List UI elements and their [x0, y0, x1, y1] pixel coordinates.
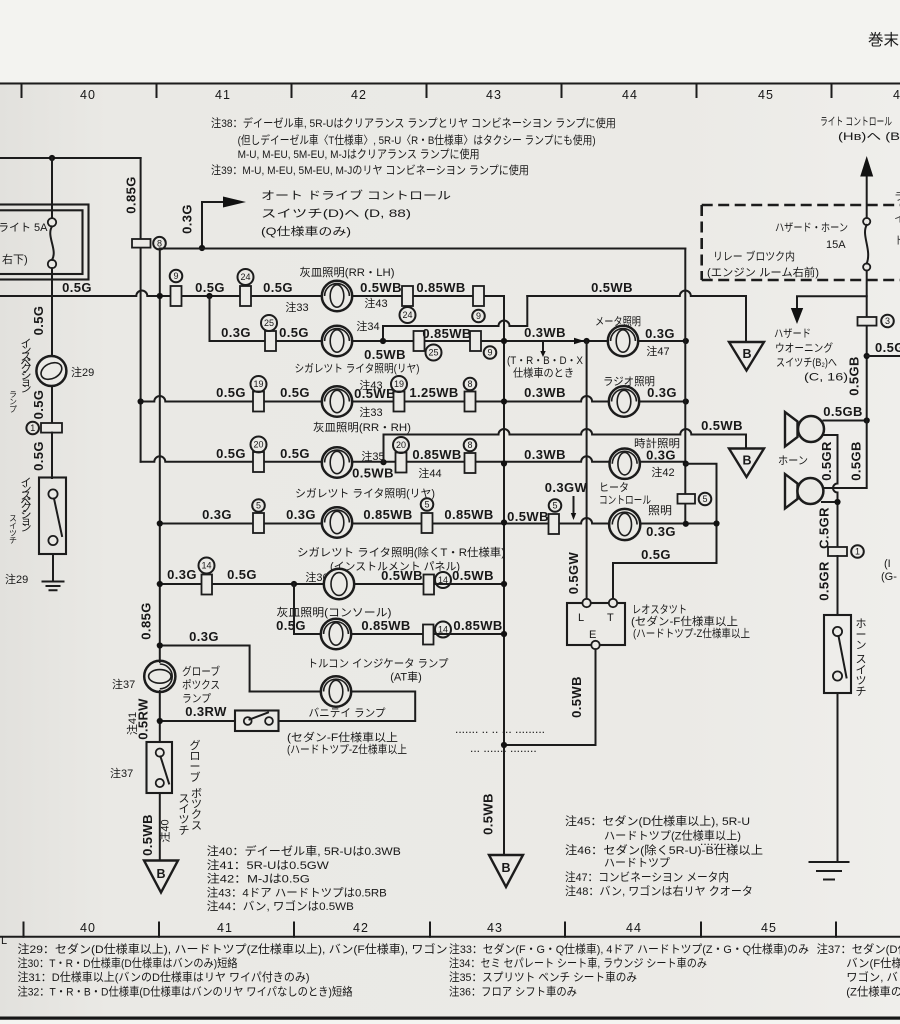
wire: clock row corner to rheostat-T rail	[613, 464, 717, 599]
lamp: heater control illumination	[609, 509, 640, 540]
wire: rail L2 from top bus down to glove box lamp	[159, 249, 161, 662]
svg-text:46: 46	[893, 88, 900, 102]
svg-text:オート ドライブ コントロール: オート ドライブ コントロール	[261, 188, 451, 202]
annotation arrow on meter wire	[574, 338, 585, 344]
svg-text:0.5GR: 0.5GR	[819, 441, 834, 481]
ground triangle B3	[489, 855, 523, 887]
svg-text:(AT車): (AT車)	[390, 670, 422, 684]
svg-text:0.85WB: 0.85WB	[444, 507, 493, 522]
connector 8c row4	[465, 453, 476, 473]
svg-text:ト: ト	[894, 235, 900, 247]
horn 2 (lower)	[785, 474, 823, 509]
wire: fuse up to light control arrow	[866, 176, 868, 218]
svg-text:ライト 5A: ライト 5A	[0, 222, 48, 234]
wire: top feed y=158	[0, 157, 141, 159]
svg-text:(I: (I	[884, 558, 891, 570]
svg-text:0.5G: 0.5G	[280, 446, 310, 461]
svg-text:注40: 注40	[158, 819, 172, 842]
svg-text:42: 42	[353, 921, 369, 935]
svg-text:(但しデイーゼル車〈T仕様車〉, 5R-U〈R・B仕様車〉は: (但しデイーゼル車〈T仕様車〉, 5R-U〈R・B仕様車〉はタクシー ランプにも…	[238, 133, 596, 147]
wire: stub row1 to row2	[209, 296, 211, 341]
notes 45-48	[565, 814, 763, 898]
wire: vanity lamp right loop to switch	[279, 692, 416, 722]
svg-text:0.3RW: 0.3RW	[185, 704, 227, 719]
svg-text:0.3GW: 0.3GW	[545, 480, 588, 495]
svg-text:0.5G: 0.5G	[31, 390, 46, 420]
svg-text:5: 5	[256, 501, 261, 511]
top ruler	[0, 84, 900, 103]
svg-text:0.85WB: 0.85WB	[361, 618, 410, 633]
svg-text:注44: 注44	[418, 466, 441, 480]
svg-text:注37：セダン(D仕様車: 注37：セダン(D仕様車	[817, 942, 900, 956]
connector 1	[41, 423, 62, 433]
svg-text:0.5WB: 0.5WB	[360, 280, 402, 295]
wire: main top bus y=248.5	[160, 248, 686, 250]
svg-text:(ハードトツプ-Z仕様車以上: (ハードトツプ-Z仕様車以上	[287, 742, 407, 756]
svg-text:0.85WB: 0.85WB	[422, 326, 471, 341]
svg-text:(セダン-F仕様車以上: (セダン-F仕様車以上	[631, 614, 738, 628]
svg-text:注39：M-U, M-EU, 5M-EU, M-Jのリヤ コ: 注39：M-U, M-EU, 5M-EU, M-Jのリヤ コンビネーシヨン ラン…	[211, 163, 529, 177]
wire: horn switch to ground	[837, 693, 839, 862]
svg-text:ハザード: ハザード	[774, 327, 811, 340]
svg-text:0.5G: 0.5G	[62, 280, 92, 295]
svg-text:14: 14	[201, 561, 211, 571]
vertical label インスペクション ランプ	[9, 338, 31, 414]
wire: M1 branch row6 to row7	[294, 584, 504, 634]
svg-text:0.3G: 0.3G	[286, 507, 316, 522]
node row7/M2	[501, 631, 507, 637]
svg-text:0.5WB: 0.5WB	[507, 509, 549, 524]
wire: fuse down through connector 3 to horn bus	[866, 271, 868, 421]
svg-text:9: 9	[476, 311, 481, 321]
ground triangle B2	[729, 449, 764, 478]
node row2/M2	[501, 338, 507, 344]
wire: switch to ground	[52, 554, 54, 581]
svg-text:注33: 注33	[285, 300, 308, 314]
svg-text:8: 8	[467, 379, 472, 389]
svg-text:照明: 照明	[648, 504, 672, 517]
svg-text:(Hв)へ (B: (Hв)へ (B	[838, 131, 900, 143]
svg-text:注29：セダン(D仕様車以上), ハードトツプ(Z仕様車以上: 注29：セダン(D仕様車以上), ハードトツプ(Z仕様車以上), バン(F仕様車…	[18, 942, 448, 956]
svg-text:8: 8	[467, 440, 472, 450]
node row1/L2	[157, 293, 163, 299]
wire: rheostat E to M2	[504, 649, 596, 745]
svg-text:41: 41	[217, 921, 233, 935]
svg-text:(ハードトツプ-Z仕様車以上: (ハードトツプ-Z仕様車以上	[633, 626, 750, 640]
fusebox (double border, clipped at left page edge)	[0, 205, 89, 280]
svg-text:20: 20	[253, 440, 263, 450]
svg-text:シガレツト ライタ照明(除くT・R仕様車): シガレツト ライタ照明(除くT・R仕様車)	[297, 545, 505, 559]
svg-text:注29: 注29	[5, 572, 28, 586]
svg-text:注42: 注42	[651, 465, 674, 479]
svg-text:注43：4ドア ハードトツプは0.5RB: 注43：4ドア ハードトツプは0.5RB	[207, 886, 387, 900]
svg-text:14: 14	[438, 575, 448, 585]
svg-text:注36：フロア シフト車のみ: 注36：フロア シフト車のみ	[449, 985, 577, 999]
svg-text:5: 5	[552, 501, 557, 511]
svg-text:(C, 16): (C, 16)	[804, 372, 848, 384]
spec text T・R・B・D・X	[507, 355, 584, 380]
bottom notes column 2 (注33-36)	[449, 942, 809, 999]
svg-text:ボツクス: ボツクス	[191, 787, 202, 832]
svg-text:0.5WB: 0.5WB	[352, 466, 394, 481]
connector 14b row6	[424, 575, 435, 595]
svg-text:0.5G: 0.5G	[227, 567, 257, 582]
svg-text:インスペクション: インスペクション	[21, 338, 32, 395]
note 38/39 text block	[211, 116, 616, 177]
svg-text:0.3WB: 0.3WB	[524, 325, 566, 340]
svg-text:0.5WB: 0.5WB	[140, 814, 155, 856]
vertical label グローブ ボツクス スイツチ	[179, 738, 203, 837]
lamp: cigarette lighter illumination rear (row4)	[322, 447, 352, 477]
relay block dashed box	[702, 205, 900, 280]
node row5/M2	[501, 519, 507, 525]
ground (inspection switch)	[43, 582, 64, 591]
ground triangle B1	[729, 342, 764, 371]
node row2 jog join	[380, 338, 386, 344]
rheostat レオスタツト	[567, 599, 625, 649]
svg-text:スイツチ(D)へ (D, 88): スイツチ(D)へ (D, 88)	[261, 207, 411, 220]
wire: 0.85G rail L1 (x=141.8) from top feed down to cigarette-lighter row	[140, 158, 142, 462]
svg-text:5: 5	[702, 494, 707, 504]
svg-text:グローブ: グローブ	[182, 664, 220, 678]
connector 25 row2	[265, 331, 276, 351]
svg-text:0.5WB: 0.5WB	[452, 568, 494, 583]
svg-text:ハザード・ホーン: ハザード・ホーン	[775, 221, 848, 234]
connector 20 row4	[253, 452, 264, 472]
svg-text:メータ照明: メータ照明	[595, 315, 641, 328]
svg-text:グローブ: グローブ	[190, 738, 201, 784]
svg-text:0.85G: 0.85G	[124, 176, 139, 213]
lamp: torque converter indicator lamp	[321, 619, 351, 649]
node row5/L2	[157, 520, 163, 526]
wire: right rail down and left to horn2	[824, 421, 867, 489]
lamp: meter illumination	[608, 326, 638, 356]
lamp: ashtray illumination RR-LH	[322, 281, 352, 311]
node heater/M5	[683, 521, 689, 527]
svg-text:0.85WB: 0.85WB	[363, 507, 412, 522]
svg-text:0.3G: 0.3G	[646, 448, 676, 463]
svg-text:43: 43	[487, 921, 503, 935]
svg-text:0.5G: 0.5G	[279, 325, 309, 340]
svg-text:0.5WB: 0.5WB	[701, 418, 743, 433]
svg-text:25: 25	[264, 318, 274, 328]
connector 25b row2	[414, 331, 425, 351]
connector 5d on M5 between clock and heater rows	[678, 494, 696, 504]
wire: rail M5 top bus continuation down to heater row	[684, 249, 686, 525]
connector 9b row1	[473, 286, 484, 306]
svg-text:0.3G: 0.3G	[647, 385, 677, 400]
wire: B2 bus 0.5WB y=434.5 (humps over M2, M4, M5)	[384, 429, 747, 462]
svg-text:0.3G: 0.3G	[221, 325, 251, 340]
svg-text:1: 1	[30, 423, 35, 433]
svg-text:注45：セダン(D仕様車以上), 5R-U: 注45：セダン(D仕様車以上), 5R-U	[565, 814, 750, 828]
wire: row4 cigarette lighter rear2 / clock y=463.5 (humps over L2, M4)	[141, 456, 686, 463]
svg-text:....... .. .. ... .........: ....... .. .. ... .........	[455, 722, 545, 736]
svg-text:0.5WB: 0.5WB	[569, 676, 584, 718]
lamp: glove box lamp	[144, 661, 175, 692]
svg-text:注37: 注37	[110, 766, 133, 780]
lamp: ashtray illumination (console)	[324, 569, 354, 599]
wire: connector to horn switch	[837, 556, 839, 615]
svg-text:M-U, M-EU, 5M-EU, M-Jはクリアランス ラ: M-U, M-EU, 5M-EU, M-Jはクリアランス ランプに使用	[238, 147, 480, 161]
svg-text:ポツクス: ポツクス	[182, 679, 220, 692]
svg-text:スイツチ: スイツチ	[179, 793, 190, 837]
svg-text:0.3G: 0.3G	[202, 507, 232, 522]
svg-text:1: 1	[855, 547, 860, 557]
svg-text:19: 19	[253, 379, 263, 389]
switch: horn switch	[824, 615, 851, 693]
svg-text:0.5G: 0.5G	[280, 385, 310, 400]
svg-text:0.5WB: 0.5WB	[381, 568, 423, 583]
lamp: cigarette lighter illumination (instrument panel)	[322, 507, 352, 537]
connector 24 row1	[240, 286, 251, 306]
lamp: cigarette lighter illumination (rear)	[322, 326, 352, 356]
svg-text:注43: 注43	[364, 296, 387, 310]
svg-text:仕様車のとき: 仕様車のとき	[513, 366, 574, 380]
svg-text:右下): 右下)	[2, 252, 28, 266]
connector 9c row2	[470, 331, 481, 351]
svg-text:注33: 注33	[359, 405, 382, 419]
svg-text:ハードトツプ(Z仕様車以上): ハードトツプ(Z仕様車以上)	[604, 829, 741, 843]
svg-text:9: 9	[487, 348, 492, 358]
connector 24b row1	[402, 286, 413, 306]
svg-text:45: 45	[758, 88, 774, 102]
svg-text:T: T	[607, 612, 614, 624]
connector 5 row5	[253, 513, 264, 533]
svg-text:0.5G: 0.5G	[875, 340, 900, 355]
bottom scan edge line	[0, 1017, 900, 1020]
svg-text:43: 43	[486, 88, 502, 102]
svg-text:44: 44	[622, 88, 638, 102]
svg-text:0.85WB: 0.85WB	[453, 618, 502, 633]
wire: glove lamp down to glove switch	[159, 692, 161, 742]
svg-text:0.5GB: 0.5GB	[823, 404, 863, 419]
node row6/M2	[501, 581, 507, 587]
svg-text:リレー ブロツク内: リレー ブロツク内	[713, 249, 795, 263]
wire: 0.3G branch with arrow to auto drive control	[202, 202, 223, 248]
node row6 branch M1	[291, 581, 297, 587]
svg-text:24: 24	[402, 310, 412, 320]
svg-text:B: B	[501, 861, 510, 875]
wire: row3 ashtray RR-RH / radio y=401.5 (humps over L2, M4)	[141, 396, 686, 402]
svg-text:0.5G: 0.5G	[31, 441, 46, 471]
svg-text:40: 40	[80, 88, 96, 102]
svg-text:ワゴン, バン: ワゴン, バン	[846, 970, 900, 984]
node row2/M5 and M4 top	[683, 338, 689, 344]
svg-text:0.85G: 0.85G	[139, 602, 154, 639]
svg-text:シガレツト ライタ照明(リヤ): シガレツト ライタ照明(リヤ)	[295, 362, 420, 375]
svg-text:0.3G: 0.3G	[646, 524, 676, 539]
svg-text:スイツチ(B₂)へ: スイツチ(B₂)へ	[776, 356, 837, 369]
ground (horn switch)	[810, 862, 849, 880]
wire: rail M2 x=504 from row1 down to B3	[503, 296, 505, 855]
vanity spec note	[287, 730, 407, 756]
svg-text:E: E	[589, 629, 596, 641]
svg-text:0.5WB: 0.5WB	[364, 347, 406, 362]
svg-text:14: 14	[438, 625, 448, 635]
lamp: clock illumination	[610, 449, 640, 479]
node heater/T-rail	[713, 520, 719, 526]
svg-text:8: 8	[157, 238, 162, 248]
svg-text:0.3G: 0.3G	[645, 326, 675, 341]
svg-text:注34: 注34	[356, 319, 379, 333]
svg-text:注30：T・R・D仕様車(D仕様車はバンのみ)短絡: 注30：T・R・D仕様車(D仕様車はバンのみ)短絡	[18, 956, 238, 970]
svg-text:スイツチ: スイツチ	[9, 514, 17, 545]
fuse hazard-horn 15A	[863, 218, 870, 271]
svg-text:0.5G: 0.5G	[216, 385, 246, 400]
svg-text:灰皿照明(RR・LH): 灰皿照明(RR・LH)	[300, 265, 395, 279]
node row4 branch to B2 bus	[380, 459, 386, 465]
annotation arrow to spec text	[542, 343, 544, 351]
svg-text:0.5G: 0.5G	[641, 547, 671, 562]
wire: lamp to connector 1	[51, 386, 53, 423]
wire: 0.5WB row to ground B1 (y=296, hump over M5)	[527, 291, 746, 343]
svg-text:0.5WB: 0.5WB	[354, 386, 396, 401]
connector 8b row3	[465, 392, 476, 412]
svg-text:20: 20	[396, 440, 406, 450]
svg-text:ウオーニング: ウオーニング	[775, 341, 833, 355]
connector 19b row3	[394, 392, 405, 412]
connector 9 row1	[171, 286, 182, 306]
svg-text:0.5WB: 0.5WB	[591, 280, 633, 295]
lamp: radio illumination	[609, 386, 639, 416]
svg-text:注37: 注37	[112, 677, 135, 691]
svg-text:3: 3	[885, 316, 890, 326]
svg-text:注34：セミ セパレート シート車, ラウンジ シート車のみ: 注34：セミ セパレート シート車, ラウンジ シート車のみ	[449, 956, 707, 970]
svg-text:0.5G: 0.5G	[216, 446, 246, 461]
node row1 stub to row2	[206, 293, 212, 299]
svg-text:0.5GW: 0.5GW	[566, 551, 581, 594]
lamp: vanity lamp	[321, 676, 351, 706]
connector 5c row5	[549, 514, 560, 534]
wire: horn1 to right rail 0.5GB	[824, 420, 867, 422]
connector 3	[858, 317, 877, 326]
wire: vanity switch to glove rail	[160, 720, 235, 722]
svg-text:ホーン: ホーン	[778, 454, 808, 467]
switch: glove box switch	[147, 742, 173, 793]
svg-text:注48：バン, ワゴンは右リヤ クオータ: 注48：バン, ワゴンは右リヤ クオータ	[565, 884, 753, 898]
svg-text:レオスタツト: レオスタツト	[632, 603, 687, 616]
wire: fuse drop into fusebox	[51, 158, 53, 218]
svg-text:(エンジン ルーム右前): (エンジン ルーム右前)	[707, 265, 819, 279]
svg-text:注47: 注47	[646, 344, 669, 358]
svg-text:ヒータ: ヒータ	[599, 481, 629, 494]
svg-text:L: L	[578, 612, 584, 624]
svg-text:0.5G: 0.5G	[195, 280, 225, 295]
svg-text:注31：D仕様車以上(バンのD仕様車はリヤ ワイパ付きのみ): 注31：D仕様車以上(バンのD仕様車はリヤ ワイパ付きのみ)	[18, 970, 310, 984]
node row3/M2	[501, 398, 507, 404]
svg-text:0.5GB: 0.5GB	[849, 441, 864, 481]
svg-text:0.3G: 0.3G	[189, 629, 219, 644]
svg-text:B: B	[742, 347, 751, 361]
svg-text:1.25WB: 1.25WB	[409, 385, 458, 400]
svg-text:0.3G: 0.3G	[167, 567, 197, 582]
svg-text:24: 24	[240, 272, 250, 282]
svg-text:注33：セダン(F・G・Q仕様車), 4ドア ハードトツプ(: 注33：セダン(F・G・Q仕様車), 4ドア ハードトツプ(Z・G・Q仕様車)の…	[449, 942, 809, 956]
bottom notes column 1 (注29-32)	[18, 942, 448, 999]
svg-text:40: 40	[80, 921, 96, 935]
svg-text:0.5GB: 0.5GB	[847, 356, 862, 396]
svg-text:0.3WB: 0.3WB	[524, 447, 566, 462]
svg-text:注46：セダン(除く5R-U)-B仕様以上: 注46：セダン(除く5R-U)-B仕様以上	[565, 843, 763, 857]
svg-text:注44：バン, ワゴンは0.5WB: 注44：バン, ワゴンは0.5WB	[207, 899, 354, 913]
svg-text:トルコン インジケータ ランプ: トルコン インジケータ ランプ	[308, 657, 449, 670]
vertical label インスペクション スイツチ	[9, 477, 31, 545]
node row4/M5	[683, 461, 689, 467]
node row3/M5	[683, 398, 689, 404]
svg-text:0.3G: 0.3G	[180, 204, 195, 234]
connector 8 on rail L1	[132, 239, 151, 248]
svg-text:0.5G: 0.5G	[276, 618, 306, 633]
svg-text:ライト コントロール: ライト コントロール	[820, 116, 892, 128]
wire: row5 cigarette lighter instr-panel / heater y=523.5 (hump over M4)	[160, 518, 717, 524]
svg-text:(Z仕様車のみ: (Z仕様車のみ	[846, 985, 900, 999]
connector 14c row7	[423, 625, 434, 645]
svg-text:0.85WB: 0.85WB	[416, 280, 465, 295]
wire: horn2 bottom stub to 0.5GR rail	[822, 501, 838, 503]
wire: row1 ashtray RR-LH feed y=296 (hump over L1)	[0, 291, 504, 297]
scan ghost artifacts	[455, 722, 733, 848]
lamp: ashtray illumination RR-RH	[322, 386, 352, 416]
ground triangle B4	[144, 861, 178, 893]
switch: vanity lamp switch	[235, 711, 279, 732]
lamp: inspection lamp	[36, 356, 66, 386]
svg-text:L: L	[1, 935, 7, 947]
svg-text:ランプ: ランプ	[9, 390, 17, 414]
connector 14 row6	[202, 575, 213, 595]
horn 1 (upper)	[785, 412, 824, 447]
svg-text:注29: 注29	[71, 365, 94, 379]
connector 5b row5	[422, 513, 433, 533]
svg-text:注32：T・R・B・D仕様車(D仕様車はバンのリヤ ワイパな: 注32：T・R・B・D仕様車(D仕様車はバンのリヤ ワイパなしのとき)短絡	[18, 985, 353, 999]
svg-text:0.5RW: 0.5RW	[136, 698, 151, 740]
svg-text:注38：デイーゼル車, 5R-Uはクリアランス ランプとリヤ: 注38：デイーゼル車, 5R-Uはクリアランス ランプとリヤ コンビネーシヨン …	[211, 116, 616, 130]
svg-text:0.5GR: 0.5GR	[817, 561, 832, 601]
svg-text:ハードトツプ: ハードトツプ	[604, 857, 671, 870]
svg-text:0.85WB: 0.85WB	[412, 447, 461, 462]
node + 0.5G stub to page edge	[864, 353, 870, 359]
svg-text:42: 42	[351, 88, 367, 102]
svg-text:5: 5	[424, 500, 429, 510]
wire: down from row1 to inspection lamp	[51, 296, 53, 357]
svg-text:ホーンスイツチ: ホーンスイツチ	[856, 617, 867, 698]
svg-text:バン(F仕様車: バン(F仕様車	[846, 956, 900, 970]
wire: vanity feed 0.3G from L2	[160, 646, 250, 692]
svg-text:44: 44	[626, 921, 642, 935]
svg-text:(T・R・B・D・X: (T・R・B・D・X	[507, 355, 584, 367]
svg-text:9: 9	[173, 271, 178, 281]
svg-text:15A: 15A	[826, 239, 846, 251]
wire: row2 cigarette lighter rear / meter illum y=341 (hump over M4 none; dots at M2)	[210, 340, 686, 342]
svg-text:B: B	[742, 454, 751, 468]
svg-text:インスペクション: インスペクション	[21, 477, 32, 534]
svg-text:0.3WB: 0.3WB	[524, 385, 566, 400]
bottom notes column 3 (注37, clipped at right edge)	[817, 942, 900, 999]
svg-text:45: 45	[761, 921, 777, 935]
svg-text:C.5GR: C.5GR	[817, 507, 832, 549]
node row4/M2	[501, 460, 507, 466]
svg-text:注42：M-Jは0.5G: 注42：M-Jは0.5G	[207, 872, 310, 886]
wire: fusebox output down to row1	[51, 268, 53, 296]
svg-text:41: 41	[215, 88, 231, 102]
svg-text:イ: イ	[894, 213, 900, 225]
svg-text:巻末: 巻末	[868, 31, 899, 49]
svg-text:注41：5R-Uは0.5GW: 注41：5R-Uは0.5GW	[207, 858, 329, 872]
wire: glove switch to ground triangle B4	[159, 793, 161, 860]
svg-text:注40：デイーゼル車, 5R-Uは0.3WB: 注40：デイーゼル車, 5R-Uは0.3WB	[207, 844, 401, 858]
notes 40-44	[207, 844, 401, 913]
svg-text:ラ: ラ	[894, 191, 900, 203]
